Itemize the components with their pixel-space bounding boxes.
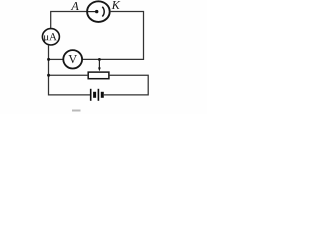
wire: phototube right to top-right corner, down right rail to voltmeter row: [82, 12, 143, 60]
wire: left rail to rheostat left end: [49, 74, 89, 76]
node: junction dot at wiper take-off: [98, 58, 101, 61]
wire: top-left horizontal from corner into phototube anode, and down-leg to microammeter: [51, 12, 88, 29]
wire: left rail from microammeter down to bottom-left corner, then bottom rail to battery: [49, 45, 91, 95]
wire: voltmeter row left segment: [49, 58, 64, 60]
rheostat (potentiometer) body: [88, 72, 109, 79]
wiper arrow onto rheostat: [98, 59, 100, 68]
wire: rheostat right end to right rail down to bottom-right corner: [104, 75, 148, 95]
label K (cathode): [112, 1, 121, 9]
node: junction dot left rail / rheostat row: [47, 74, 50, 77]
battery cell plate long 1: [90, 89, 92, 101]
phototube envelope: [87, 1, 110, 22]
phototube anode lead: [88, 11, 97, 13]
battery cell plate long 2: [97, 89, 99, 101]
voltmeter V: [63, 50, 82, 68]
node: junction dot left rail / voltmeter row: [47, 58, 50, 61]
phototube anode dot: [95, 10, 98, 13]
caption remnant (cropped figure caption): [72, 110, 81, 112]
battery cell plate short thick 2: [101, 92, 104, 98]
microammeter uA: [42, 29, 59, 45]
battery cell plate short thick 1: [93, 92, 96, 98]
phototube cathode arc: [102, 7, 104, 17]
label A (anode): [71, 2, 79, 10]
